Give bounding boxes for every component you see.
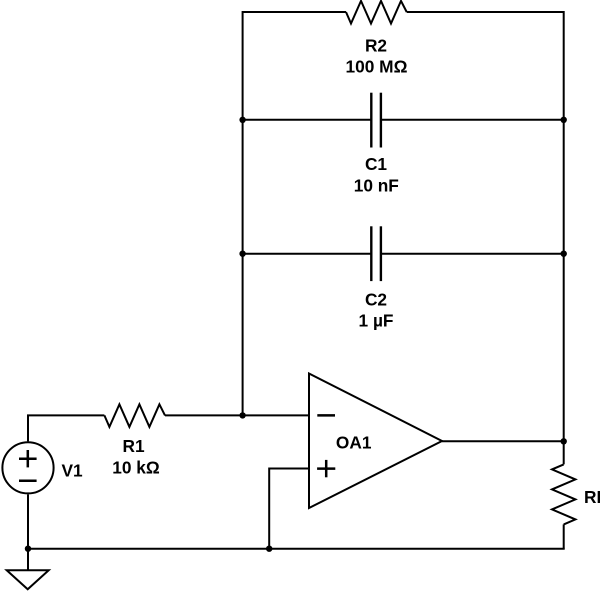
- wire: right rail top: [563, 11, 565, 464]
- junction dot: ground node: [25, 546, 31, 552]
- resistor RL: [552, 464, 575, 524]
- wire: bottom rail: [28, 548, 565, 550]
- svg-text:C2: C2: [365, 289, 387, 309]
- junction dot: left rail / C1: [239, 117, 245, 123]
- svg-text:10 kΩ: 10 kΩ: [112, 458, 160, 478]
- wire: op-amp output: [442, 440, 564, 442]
- svg-text:C1: C1: [365, 154, 387, 174]
- junction dot: left rail / C2: [239, 251, 245, 257]
- junction dot: feedback node: [239, 412, 245, 418]
- wire: non-inverting input: [269, 469, 309, 549]
- wire: C1 left lead: [243, 119, 372, 121]
- junction dot: right rail / C1: [561, 117, 567, 123]
- svg-text:OA1: OA1: [336, 432, 372, 452]
- wire: C1 right lead: [381, 119, 564, 121]
- svg-text:1 µF: 1 µF: [359, 311, 394, 331]
- svg-text:100 MΩ: 100 MΩ: [346, 57, 408, 77]
- svg-text:RL: RL: [584, 487, 600, 507]
- ground: [7, 549, 49, 590]
- svg-text:10 nF: 10 nF: [354, 175, 399, 195]
- wire: R1 to inverting input: [165, 414, 309, 416]
- wire: C2 left lead: [243, 253, 372, 255]
- wire: C2 right lead: [381, 253, 564, 255]
- wire: V1 top lead: [27, 415, 29, 441]
- wire: V1 to R1: [27, 414, 104, 416]
- voltage source V1: [2, 442, 53, 493]
- wire: top rail left segment: [243, 11, 346, 13]
- junction dot: output node: [561, 438, 567, 444]
- wire: V1 bottom lead: [27, 494, 29, 548]
- wire: right rail bottom: [563, 524, 565, 548]
- svg-text:R2: R2: [365, 36, 387, 56]
- svg-text:V1: V1: [62, 460, 84, 480]
- wire: top rail right segment: [407, 11, 564, 13]
- junction dot: right rail / C2: [561, 251, 567, 257]
- wire: left rail: [242, 11, 244, 415]
- junction dot: non-inverting node: [266, 546, 272, 552]
- resistor R1: [104, 404, 165, 427]
- resistor R2: [346, 1, 407, 24]
- svg-text:R1: R1: [123, 436, 145, 456]
- op-amp OA1: [309, 374, 442, 509]
- capacitor C2: [371, 226, 381, 281]
- capacitor C1: [371, 93, 381, 148]
